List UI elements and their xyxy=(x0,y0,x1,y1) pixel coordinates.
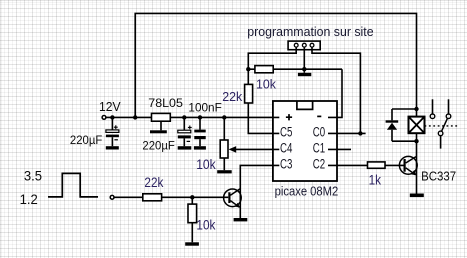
capacitor C2 220uF lead upper xyxy=(183,117,185,130)
transistor Q1 emitter diagonal xyxy=(230,201,239,208)
potentiometer RV1 lower lead xyxy=(223,158,225,170)
junction dot relay top xyxy=(414,107,418,111)
wire C2 to resistor R5 1k xyxy=(328,164,368,166)
resistor R3 22k body xyxy=(143,194,162,201)
potentiometer RV1 10k upper lead xyxy=(223,117,225,140)
resistor R4 10k body (base pulldown) xyxy=(191,197,193,204)
transistor Q1 emitter arrow xyxy=(235,203,240,208)
wire 1k to Q2 base xyxy=(385,164,404,166)
diode D1 triangle xyxy=(387,123,397,130)
svg-text:C0: C0 xyxy=(313,125,325,140)
resistor R1 22k body (serial in) xyxy=(245,84,253,103)
transistor Q2 emitter arrow xyxy=(411,170,417,175)
wire 22k to Q1 base xyxy=(162,196,229,198)
ground bar cap C3 xyxy=(194,146,206,149)
transistor Q2 emitter diagonal xyxy=(406,168,416,175)
svg-text:78L05: 78L05 xyxy=(148,96,183,110)
chip pin - symbol xyxy=(317,115,321,117)
potentiometer wiper arrow xyxy=(236,148,279,150)
svg-text:BC337: BC337 xyxy=(421,169,456,184)
transistor Q2 BC337 circle xyxy=(399,156,417,174)
svg-text:C5: C5 xyxy=(280,125,292,140)
wire C3 to Q1 collector xyxy=(240,165,279,218)
junction dot cap3 tap xyxy=(198,115,202,119)
chip pin stub C1 xyxy=(328,148,351,150)
capacitor C3 lead lower xyxy=(199,139,201,146)
svg-text:10k: 10k xyxy=(196,157,216,172)
ground bar cap C2 xyxy=(178,146,192,149)
switch common stub xyxy=(440,136,442,149)
diode D1 cathode lead xyxy=(391,109,393,120)
switch blade xyxy=(442,118,448,131)
regulator ground stub xyxy=(160,121,162,130)
capacitor C1 220uF lead upper xyxy=(111,117,113,129)
wire +12V top frame to relay xyxy=(135,13,416,117)
capacitor C3 100nF plates xyxy=(194,130,205,133)
node input terminal xyxy=(110,195,114,199)
capacitor C3 100nF lead upper xyxy=(199,117,201,129)
connector pin circles xyxy=(294,43,298,47)
mechanical link dashed xyxy=(425,125,460,127)
svg-text:C3: C3 xyxy=(280,157,292,172)
transistor Q1 collector diagonal xyxy=(230,189,240,195)
diode D1 anode lead xyxy=(391,130,393,141)
connector middle pin to ground xyxy=(303,47,305,73)
wire relay bottom to Q2 collector and emitter to ground xyxy=(416,133,418,193)
svg-text:22k: 22k xyxy=(222,89,242,104)
svg-text:220µF: 220µF xyxy=(70,133,102,147)
ground bar Q2 emitter xyxy=(410,194,424,198)
junction dot top-frame left xyxy=(133,115,137,119)
transistor Q2 collector diagonal xyxy=(406,157,416,163)
svg-text:picaxe 08M2: picaxe 08M2 xyxy=(275,184,339,199)
chip pin + symbol xyxy=(286,114,292,120)
wire 22k to C5 pin xyxy=(248,103,279,133)
waveform input pulse xyxy=(48,173,98,197)
ground bar Q1 emitter xyxy=(234,218,248,221)
node 12V input terminal xyxy=(102,116,106,120)
capacitor C1 polarity marks xyxy=(114,125,118,129)
junction dot C0 corner xyxy=(358,131,362,135)
resistor R5 1k body xyxy=(368,162,386,168)
ground bar cap C1 xyxy=(106,146,119,149)
wire ground rail to chip - pin xyxy=(328,69,342,117)
switch common circle xyxy=(438,131,443,136)
ground bar potentiometer xyxy=(217,170,232,173)
capacitor C2 lead lower xyxy=(183,138,185,146)
switch contact stubs xyxy=(432,99,434,114)
junction dot potentiometer tap xyxy=(222,115,226,119)
transistor Q2 base bar xyxy=(404,159,406,172)
svg-text:12V: 12V xyxy=(99,100,121,114)
switch contact circles xyxy=(430,114,435,119)
junction dot middle pin xyxy=(302,67,306,71)
regulator U2 78L05 body xyxy=(152,113,171,121)
junction dot relay bottom xyxy=(414,139,418,143)
svg-text:10k: 10k xyxy=(196,218,215,233)
svg-text:C4: C4 xyxy=(280,141,293,156)
relay K1 coil box xyxy=(409,117,425,134)
capacitor C1 220uF plates xyxy=(106,130,119,133)
chip notch xyxy=(297,101,313,109)
svg-text:programmation sur site: programmation sur site xyxy=(247,24,373,39)
svg-text:100nF: 100nF xyxy=(188,100,221,114)
potentiometer RV1 10k body xyxy=(220,140,228,158)
svg-text:1k: 1k xyxy=(369,173,382,188)
wire diode to relay bottom xyxy=(392,140,417,142)
resistor R2 10k body (pulldown) xyxy=(248,68,255,70)
junction dot cap2 tap xyxy=(182,115,186,119)
ground bar R4 xyxy=(185,242,199,245)
svg-text:C1: C1 xyxy=(313,141,325,156)
diode D1 cathode bar xyxy=(386,120,399,122)
wire diode to relay top xyxy=(392,108,417,110)
capacitor C1 lead lower xyxy=(111,137,113,146)
capacitor C2 polarity marks xyxy=(188,126,192,130)
wire input to 22k xyxy=(114,196,143,198)
ground bar regulator xyxy=(150,130,167,133)
svg-text:C2: C2 xyxy=(313,157,325,172)
op chip U1 picaxe 08M2 body xyxy=(273,101,337,181)
capacitor C2 220uF plates xyxy=(178,130,191,133)
wire serial-out connector pin3 to C0 xyxy=(312,47,366,133)
wire serial-in from connector pin1 down to junction A xyxy=(248,47,296,84)
svg-text:1.2: 1.2 xyxy=(20,192,38,207)
ground bar connector xyxy=(298,73,311,76)
connector J1 programming header xyxy=(288,41,320,50)
svg-text:22k: 22k xyxy=(144,175,163,190)
svg-text:3.5: 3.5 xyxy=(24,168,42,183)
junction dot base divider xyxy=(190,195,194,199)
svg-text:220µF: 220µF xyxy=(142,138,174,152)
wire 10k to ground rail xyxy=(273,68,342,70)
wire 5V rail regulator output to chip + pin xyxy=(170,116,279,118)
svg-text:10k: 10k xyxy=(256,76,276,91)
junction dot node A xyxy=(246,67,250,71)
wire 12V rail to regulator input xyxy=(106,116,152,118)
junction dot cap1 tap xyxy=(110,115,114,119)
transistor Q1 circle xyxy=(224,189,242,207)
transistor Q1 base bar xyxy=(228,192,230,203)
